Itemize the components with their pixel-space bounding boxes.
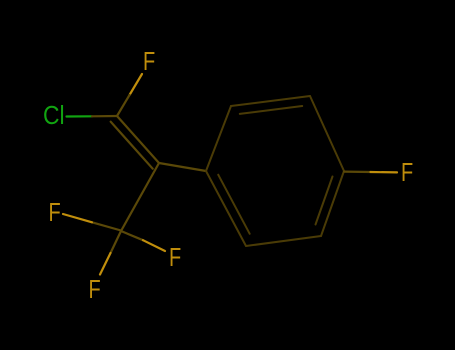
bond C3-F_c (carbon half) xyxy=(111,231,122,253)
bond C3-F_b (F half) xyxy=(143,240,165,251)
ring inner double line R-BR xyxy=(316,177,333,225)
double bond C1=C2 second line xyxy=(111,122,153,169)
bond C3-F_b (carbon half) xyxy=(121,231,143,240)
double bond C1=C2 main line xyxy=(117,116,159,163)
bond C3-F_a (F half) xyxy=(63,214,92,222)
ring edge R-BR xyxy=(321,171,344,236)
svg-text:F: F xyxy=(401,157,413,187)
bond F_top-C1 (F half) xyxy=(130,74,143,95)
ring edge BL-L xyxy=(206,171,246,246)
bond Cl-C1 (carbon half) xyxy=(92,115,117,118)
bond ring-F_right (carbon half) xyxy=(344,171,371,174)
bond F_top-C1 (carbon half) xyxy=(117,95,130,116)
ring edge BR-BL xyxy=(246,236,321,246)
ring inner double line TL-TR xyxy=(240,106,302,114)
ring inner double line BL-L xyxy=(218,175,250,234)
ring edge TL-TR xyxy=(231,96,310,106)
svg-text:F: F xyxy=(49,197,61,227)
svg-text:F: F xyxy=(169,242,181,272)
svg-text:F: F xyxy=(143,46,155,76)
bond C3-F_a (carbon half) xyxy=(92,222,121,230)
bond Cl-C1 (green half) xyxy=(67,115,93,117)
ring edge TR-R xyxy=(310,96,344,171)
svg-text:Cl: Cl xyxy=(43,100,65,130)
svg-text:F: F xyxy=(89,274,101,304)
bond C2-ring ipso xyxy=(159,163,206,171)
bond ring-F_right (F half) xyxy=(371,171,398,174)
ring edge L-TL xyxy=(206,106,231,171)
bond C2-C3 xyxy=(121,163,159,231)
bond C3-F_c (F half) xyxy=(100,253,111,275)
